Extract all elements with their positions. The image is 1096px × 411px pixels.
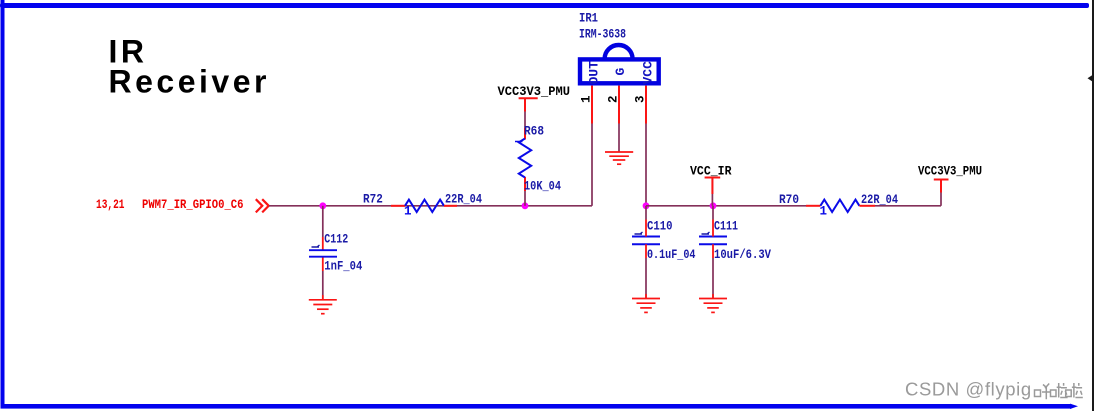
- svg-text:3: 3: [634, 95, 648, 103]
- wire: pin 3 down to rail junction: [645, 124, 647, 206]
- svg-text:10K_04: 10K_04: [524, 179, 561, 194]
- svg-text:VCC3V3_PMU: VCC3V3_PMU: [918, 164, 982, 179]
- resistor R70: [806, 200, 875, 212]
- right border arrow marker: [1088, 74, 1095, 83]
- IR1 pin 1 stub: [591, 86, 593, 124]
- border right black line: [1092, 0, 1094, 411]
- power symbol VCC3V3_PMU (right): [934, 180, 949, 193]
- svg-text:Receiver: Receiver: [109, 64, 270, 100]
- wire: C112 branch vertical: [322, 206, 324, 237]
- svg-text:C112: C112: [324, 232, 348, 247]
- R68 pin stub top: [524, 128, 526, 140]
- svg-text:13,21: 13,21: [96, 197, 125, 212]
- op IC IR1 IRM-3638 body: [580, 45, 659, 83]
- C112 pin stub bottom: [322, 257, 324, 271]
- svg-text:VCC_IR: VCC_IR: [690, 164, 732, 179]
- wire: C110 upper stem: [645, 206, 647, 220]
- C110 pin number 1 tick: [635, 232, 643, 234]
- svg-text:10uF/6.3V: 10uF/6.3V: [714, 247, 771, 262]
- svg-text:R68: R68: [524, 124, 544, 139]
- ground for C111: [699, 294, 727, 312]
- wire: C111 lower stem: [712, 258, 714, 298]
- off-page port chevron: [256, 199, 269, 212]
- svg-text:22R_04: 22R_04: [861, 192, 898, 207]
- border bottom blue bar: [1, 404, 1072, 409]
- svg-text:G: G: [613, 68, 628, 76]
- ground for C112: [309, 295, 337, 314]
- C111 pin stub top: [712, 220, 714, 237]
- C112 pin number 1 tick: [312, 245, 320, 247]
- node junction pin3/C110/rail: [643, 202, 650, 209]
- wire: R68 branch vertical below zigzag: [524, 191, 526, 206]
- svg-text:C111: C111: [714, 219, 738, 234]
- IR1 pin 2 stub: [618, 86, 620, 124]
- C111 pin number 1 tick: [702, 232, 710, 234]
- svg-text:R70: R70: [779, 192, 799, 207]
- svg-text:1: 1: [404, 205, 412, 219]
- svg-text:PWM7_IR_GPIO0_C6: PWM7_IR_GPIO0_C6: [142, 197, 244, 212]
- capacitor C110: [323, 206, 660, 245]
- ground for C110: [632, 294, 660, 312]
- svg-text:VCC: VCC: [641, 61, 656, 85]
- svg-text:1: 1: [820, 205, 828, 219]
- svg-text:CSDN @flypig: CSDN @flypig: [905, 379, 1032, 400]
- node junction at C112 branch: [319, 202, 326, 209]
- power symbol VCC_IR: [705, 178, 721, 206]
- R68 pin stub bottom: [524, 177, 526, 191]
- resistor R72: [391, 200, 457, 212]
- border left blue bar: [1, 0, 5, 406]
- svg-text:22R_04: 22R_04: [445, 191, 482, 206]
- svg-text:1nF_04: 1nF_04: [324, 259, 362, 274]
- capacitor C112: [309, 250, 337, 257]
- watermark CJK glyph la 2: [1066, 383, 1083, 398]
- wire: R70 to corner: [875, 205, 941, 207]
- wire: C110 lower stem: [645, 258, 647, 298]
- C111 pin stub bottom: [712, 244, 714, 258]
- svg-text:C110: C110: [647, 219, 673, 234]
- svg-text:0.1uF_04: 0.1uF_04: [647, 247, 696, 262]
- resistor R68: [519, 139, 531, 178]
- ground for IC pin 2: [605, 152, 633, 164]
- R68 pin number 1 (rotated): [515, 140, 523, 142]
- C112 pin stub top: [322, 237, 324, 250]
- power symbol VCC3V3_PMU (left): [519, 98, 538, 111]
- watermark CJK glyph hua: [1035, 384, 1051, 400]
- IR1 pin 3 stub: [645, 86, 647, 124]
- C110 pin stub bottom: [645, 244, 647, 258]
- node junction at R68 branch: [522, 202, 529, 209]
- svg-text:1: 1: [580, 95, 594, 103]
- wire: C112 lower stem to ground: [322, 271, 324, 300]
- svg-text:R72: R72: [363, 191, 383, 206]
- wire: R68 top to power stub: [524, 111, 526, 128]
- wire: vertical up to IC pin 1: [591, 124, 593, 206]
- watermark CJK glyph la 1: [1051, 383, 1068, 398]
- svg-text:2: 2: [607, 95, 621, 103]
- svg-text:OUT: OUT: [587, 61, 602, 85]
- wire: main horizontal net from port to pin1 corner: [269, 205, 592, 207]
- wire: pin 2 to ground: [618, 124, 620, 152]
- svg-text:IRM-3638: IRM-3638: [579, 27, 626, 42]
- svg-text:IR1: IR1: [579, 11, 598, 26]
- wire: VCC rail horizontal: [646, 205, 806, 207]
- capacitor C111: [699, 237, 727, 245]
- C110 pin stub top: [645, 220, 647, 237]
- border top blue bar: [0, 3, 1089, 8]
- node junction VCC_IR/C111: [710, 202, 717, 209]
- wire: C111 upper stem: [712, 206, 714, 220]
- svg-text:VCC3V3_PMU: VCC3V3_PMU: [498, 84, 571, 99]
- wire: corner up to power: [940, 192, 942, 206]
